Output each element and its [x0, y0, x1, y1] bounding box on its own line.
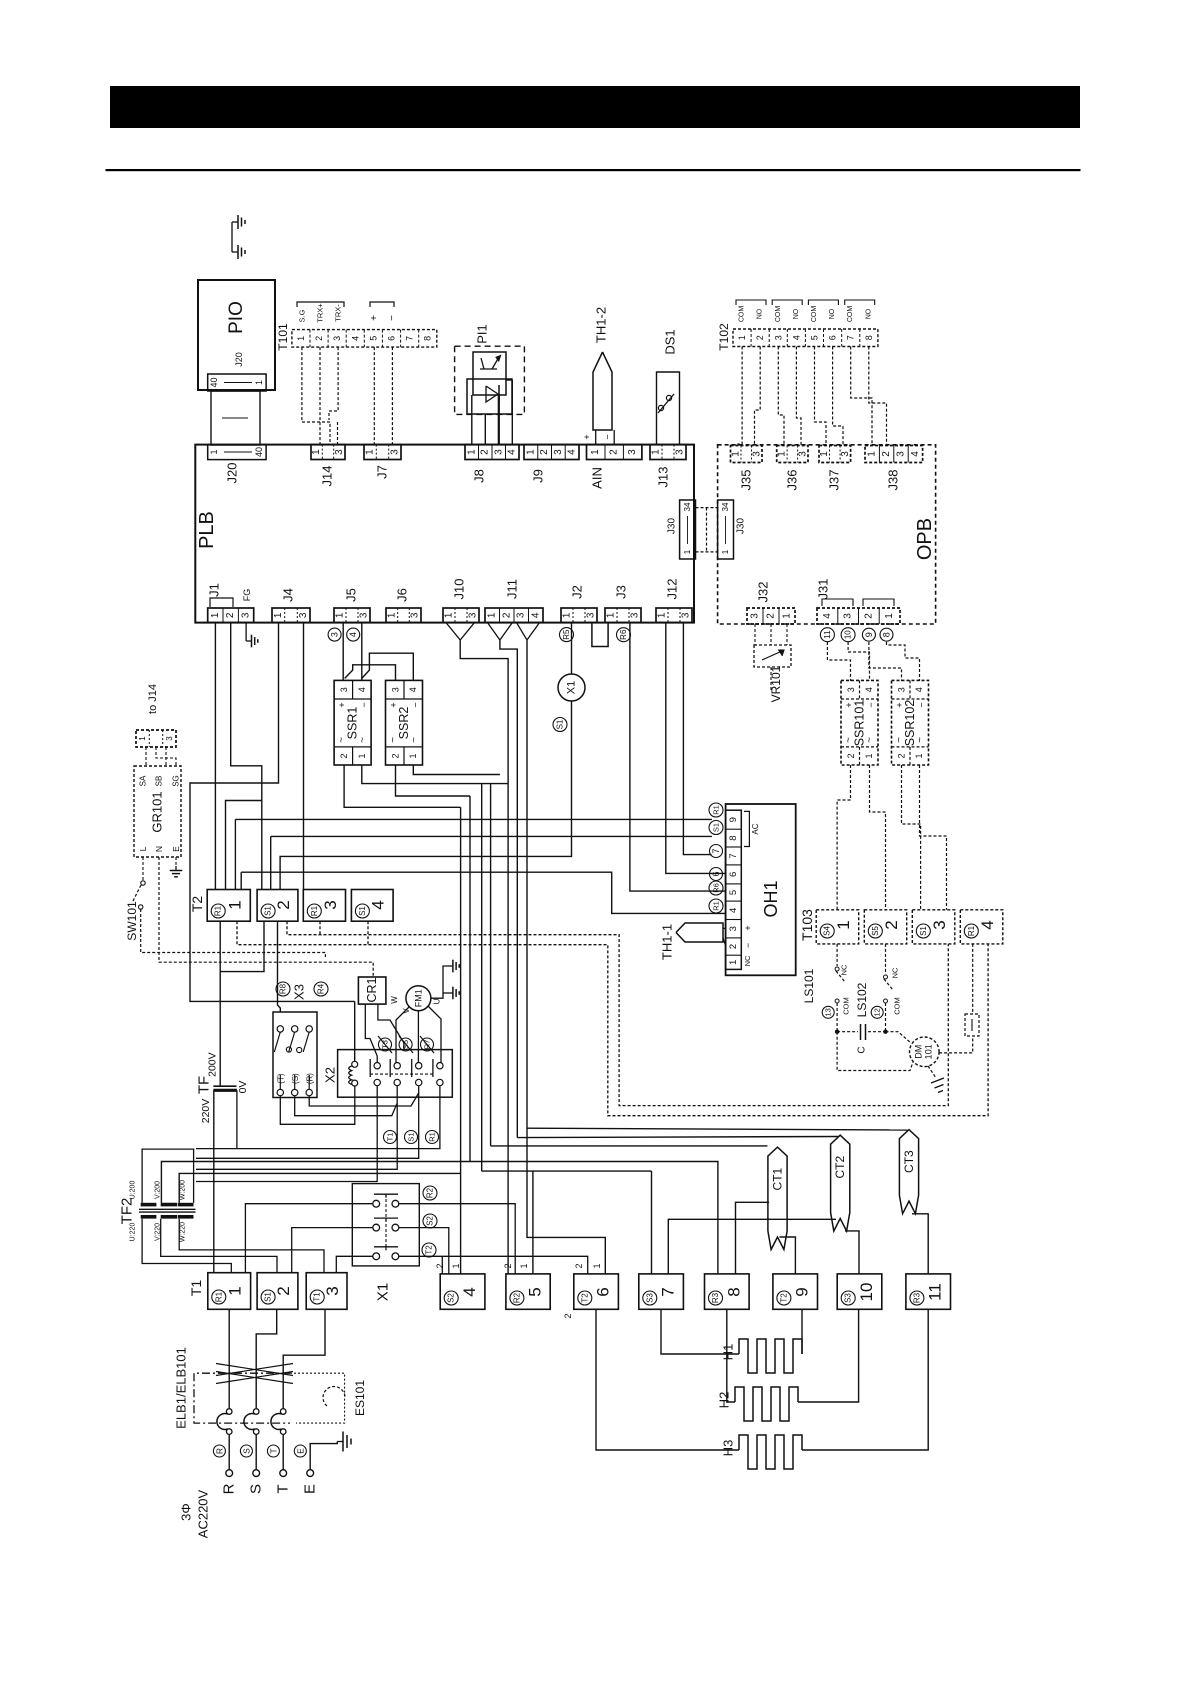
svg-text:R2: R2 — [512, 1292, 521, 1303]
svg-text:2: 2 — [339, 753, 349, 758]
connector J36 on OPB (dashed) — [777, 446, 808, 463]
svg-text:1: 1 — [444, 612, 455, 618]
X2 contact linkage (dashed) — [370, 1073, 433, 1075]
wire H1 right to box9 — [801, 1353, 803, 1355]
svg-text:J37: J37 — [827, 470, 842, 491]
svg-text:E: E — [171, 846, 181, 852]
svg-text:X2: X2 — [323, 1067, 338, 1083]
wire J1-2 to T2-2 (jog) — [231, 623, 262, 890]
svg-text:4: 4 — [460, 1287, 479, 1296]
svg-text:1: 1 — [365, 449, 376, 455]
circled R5 under J2 — [560, 628, 574, 642]
relay T2-2 — [257, 890, 298, 922]
svg-text:E: E — [302, 1484, 319, 1494]
svg-text:3: 3 — [332, 336, 342, 341]
wire SSR1-2 to heater bus — [344, 765, 461, 807]
header rule — [106, 169, 1081, 171]
CR1 wires — [365, 1004, 377, 1062]
wire box6 to H3 left rail — [596, 1309, 739, 1450]
svg-text:S1: S1 — [358, 906, 367, 916]
heater terminal 5 — [506, 1274, 550, 1309]
svg-text:1: 1 — [819, 451, 830, 457]
twisted pair triangle under J10 — [446, 623, 475, 640]
svg-text:R6: R6 — [712, 883, 721, 893]
svg-text:2: 2 — [314, 336, 324, 341]
svg-text:H1: H1 — [721, 1344, 736, 1361]
diagonal phase links into X2 — [378, 1036, 392, 1053]
svg-text:6: 6 — [594, 1287, 613, 1296]
svg-text:−: − — [359, 702, 369, 707]
svg-text:7: 7 — [728, 853, 739, 858]
svg-text:7: 7 — [659, 1287, 678, 1296]
connector AIN on PLB — [587, 445, 642, 460]
relay T2-1 — [207, 890, 250, 922]
svg-text:J32: J32 — [756, 582, 771, 603]
T2-3 dashed stub — [319, 921, 321, 935]
svg-text:S4: S4 — [823, 926, 832, 936]
svg-text:2: 2 — [846, 753, 856, 758]
J31 brackets — [822, 599, 853, 606]
svg-text:9: 9 — [864, 632, 874, 637]
svg-text:J20: J20 — [234, 352, 244, 367]
svg-text:10: 10 — [857, 1283, 876, 1302]
chassis ground pair above PIO — [231, 222, 233, 252]
ES101 dashed wiring — [290, 1373, 345, 1423]
svg-text:1: 1 — [296, 336, 306, 341]
svg-text:1: 1 — [357, 753, 367, 758]
wire SW101 down then right (dashed) — [141, 909, 326, 957]
wire SSR1-1 to J10 bundle — [362, 765, 508, 784]
svg-text:5: 5 — [368, 336, 378, 341]
svg-text:1: 1 — [590, 449, 601, 455]
circled numbers 11 10 9 8 under J31 — [820, 628, 834, 642]
svg-text:GR101: GR101 — [150, 791, 165, 832]
svg-text:R1: R1 — [967, 925, 976, 936]
wire H3 right to box11 rail — [802, 1309, 928, 1450]
current transformer CT2 — [831, 1135, 850, 1231]
svg-text:AC220V: AC220V — [196, 1489, 211, 1538]
svg-text:5: 5 — [728, 890, 739, 895]
svg-text:2: 2 — [225, 612, 236, 618]
solid state relay SSR102 — [892, 680, 929, 765]
branch CT1 to box8 — [736, 1202, 770, 1274]
svg-text:1: 1 — [683, 549, 692, 554]
svg-text:1: 1 — [311, 449, 322, 455]
svg-text:J5: J5 — [344, 588, 359, 602]
svg-text:1: 1 — [657, 612, 668, 618]
terminal T103-4 (dashed) — [960, 910, 1003, 944]
svg-text:40: 40 — [209, 377, 219, 387]
connector J8 on PLB — [465, 445, 519, 460]
svg-text:COM: COM — [775, 306, 782, 323]
wire J2-1 via X1 coil to T2-2 — [280, 701, 571, 890]
svg-text:T: T — [275, 1484, 292, 1493]
svg-text:1: 1 — [487, 612, 498, 618]
svg-text:R2: R2 — [426, 1187, 435, 1198]
breaker contacts — [226, 1409, 232, 1415]
svg-text:3: 3 — [339, 687, 349, 692]
svg-text:+: + — [369, 315, 380, 321]
wire J12-1 to OH1-6 — [666, 623, 726, 874]
svg-text:W: W — [390, 996, 399, 1004]
svg-text:TH1-2: TH1-2 — [594, 307, 609, 343]
svg-text:TF2: TF2 — [119, 1198, 136, 1225]
connector J30 on OPB — [718, 500, 734, 559]
svg-text:−: − — [387, 315, 398, 321]
T2-2 bottom joins TF 200V line — [220, 921, 264, 971]
svg-text:1: 1 — [592, 1263, 602, 1268]
svg-text:220V: 220V — [200, 1099, 212, 1124]
wire box7 to H1 left — [661, 1309, 739, 1354]
heater terminal 6 — [574, 1274, 619, 1309]
svg-text:S3: S3 — [645, 1293, 654, 1303]
svg-text:0V: 0V — [237, 1081, 249, 1094]
relay T2-3 — [303, 890, 345, 922]
heater terminal 10 — [837, 1274, 882, 1309]
svg-text:FG: FG — [242, 589, 252, 602]
svg-text:J1: J1 — [207, 583, 222, 597]
current transformer CT3 — [899, 1130, 918, 1214]
TF2 upper loop wiring — [142, 1149, 194, 1203]
svg-text:4: 4 — [978, 920, 997, 929]
CT2 wire to box10 — [845, 1231, 859, 1274]
wire J1-2 branch to T2-1 — [226, 801, 262, 890]
svg-text:13: 13 — [824, 1008, 833, 1016]
svg-text:DS1: DS1 — [663, 329, 678, 354]
svg-text:4: 4 — [408, 687, 418, 692]
svg-text:−: − — [411, 702, 421, 707]
svg-text:8: 8 — [728, 835, 739, 840]
OH1-9 feed wire — [235, 818, 712, 820]
svg-text:200V: 200V — [207, 1052, 219, 1077]
heater terminal 11 — [906, 1274, 951, 1309]
svg-text:J14: J14 — [320, 466, 335, 487]
svg-text:E: E — [295, 1448, 305, 1454]
capacitor C — [837, 1031, 858, 1033]
T2 dashed control wires to T103 — [287, 921, 948, 1105]
svg-text:PI1: PI1 — [475, 324, 490, 344]
svg-text:R1: R1 — [712, 901, 721, 911]
wire J3-3 to OH1-5 — [630, 623, 726, 892]
svg-text:3: 3 — [553, 449, 564, 455]
supply terminals — [226, 1470, 233, 1477]
svg-text:4: 4 — [530, 612, 541, 618]
svg-text:1: 1 — [728, 960, 739, 965]
svg-text:40: 40 — [254, 447, 264, 457]
wire J4-1 to X2 coil (long left route) — [190, 623, 355, 1002]
svg-text:SB: SB — [155, 776, 164, 787]
svg-text:H3: H3 — [721, 1440, 736, 1457]
svg-text:8: 8 — [882, 632, 892, 637]
terminal T103-3 (dashed) — [912, 910, 955, 944]
TF wires — [213, 1090, 215, 1272]
svg-text:J12: J12 — [665, 579, 680, 600]
svg-text:TH1-1: TH1-1 — [660, 924, 675, 960]
svg-text:−: − — [866, 702, 876, 707]
svg-text:1: 1 — [335, 612, 346, 618]
svg-text:R: R — [221, 1483, 238, 1494]
svg-text:J31: J31 — [816, 579, 831, 600]
svg-text:TRX-: TRX- — [334, 304, 343, 322]
wire J5-1 to SSR1-3 — [342, 623, 344, 681]
connector J2 on PLB — [561, 608, 597, 623]
svg-text:J3: J3 — [614, 585, 629, 599]
DM101 ground (dashed) — [928, 1066, 936, 1078]
svg-text:1: 1 — [782, 613, 793, 619]
svg-text:+: + — [582, 434, 592, 439]
wire T2-1 pin to OH1-4 net — [240, 872, 242, 889]
svg-text:3: 3 — [797, 451, 808, 457]
svg-text:2: 2 — [863, 613, 874, 619]
svg-text:1: 1 — [606, 612, 617, 618]
svg-text:T1: T1 — [188, 1280, 204, 1297]
svg-text:SSR101: SSR101 — [853, 700, 867, 747]
svg-text:S: S — [241, 1448, 251, 1454]
svg-text:S2: S2 — [426, 1216, 435, 1226]
svg-text:R5: R5 — [562, 629, 571, 640]
GR101 N wire to CR1 (dashed) — [159, 857, 373, 977]
terminal T1-3 — [306, 1273, 347, 1310]
svg-text:2: 2 — [609, 449, 620, 455]
GR101 E to ground (dashed) — [175, 857, 177, 866]
svg-text:6: 6 — [828, 335, 838, 340]
connector J12 on PLB — [656, 608, 692, 623]
svg-text:2: 2 — [435, 1263, 445, 1268]
svg-text:1: 1 — [519, 1263, 529, 1268]
trunk wire J10 pair to box5 — [460, 640, 508, 1274]
svg-text:T2: T2 — [580, 1293, 589, 1303]
svg-text:7: 7 — [846, 335, 856, 340]
wire J12-3 to OH1-7 — [683, 623, 711, 855]
circled R S T E — [213, 1445, 225, 1457]
PI1 leads to J8 — [471, 395, 473, 445]
svg-text:3: 3 — [298, 612, 309, 618]
svg-text:ELB1/ELB101: ELB1/ELB101 — [174, 1347, 189, 1429]
svg-text:1: 1 — [834, 920, 853, 929]
terminal T103-2 (dashed) — [864, 910, 906, 944]
svg-text:X3: X3 — [292, 984, 307, 1000]
relay coil CR1 — [358, 977, 386, 1004]
svg-text:OH1: OH1 — [761, 880, 781, 917]
svg-text:8: 8 — [724, 1287, 743, 1296]
wire J1-1 to T2-1 — [214, 623, 216, 890]
connector J30 on PLB — [680, 500, 696, 559]
svg-text:5: 5 — [526, 1287, 545, 1296]
svg-text:3: 3 — [516, 612, 527, 618]
wire to T2-1 with branch to OH1-9 — [234, 819, 236, 889]
svg-text:2: 2 — [881, 451, 892, 457]
GR101 filter (dashed) — [134, 766, 181, 857]
svg-text:4: 4 — [864, 687, 874, 692]
svg-text:NO: NO — [829, 308, 836, 319]
relay T2-4 — [351, 890, 393, 922]
svg-text:W:200: W:200 — [180, 1180, 187, 1200]
svg-text:2: 2 — [897, 753, 907, 758]
svg-text:S1: S1 — [919, 926, 928, 936]
svg-text:2: 2 — [766, 613, 777, 619]
OPB board outline (dashed) — [718, 445, 936, 624]
svg-text:T2: T2 — [425, 1245, 434, 1255]
svg-text:3: 3 — [750, 613, 761, 619]
svg-text:COM: COM — [811, 306, 818, 323]
DM101 wiring (dashed) — [886, 1032, 912, 1043]
FM1 ground wires — [431, 966, 448, 998]
svg-text:X1: X1 — [375, 1283, 392, 1301]
wire box8 to H2 left — [727, 1309, 735, 1402]
svg-text:R: R — [214, 1448, 224, 1454]
svg-text:11: 11 — [926, 1283, 945, 1301]
svg-text:SW101: SW101 — [125, 901, 139, 941]
terminal T1-2 — [257, 1273, 298, 1310]
svg-text:7: 7 — [711, 848, 721, 853]
svg-text:3: 3 — [773, 335, 783, 340]
svg-text:SG: SG — [172, 775, 181, 787]
svg-text:1: 1 — [730, 451, 741, 457]
svg-text:CR1: CR1 — [365, 977, 379, 1002]
svg-text:2: 2 — [503, 1263, 513, 1268]
svg-text:3: 3 — [897, 687, 907, 692]
earth wire from E — [310, 1442, 337, 1470]
svg-text:AC: AC — [751, 823, 760, 834]
connector J37 on OPB (dashed) — [819, 446, 851, 463]
svg-text:T103: T103 — [799, 909, 815, 941]
svg-text:NO: NO — [865, 308, 872, 319]
svg-text:1: 1 — [737, 335, 747, 340]
svg-text:34: 34 — [721, 502, 730, 511]
svg-text:9: 9 — [793, 1287, 812, 1296]
svg-text:U:200: U:200 — [130, 1181, 137, 1200]
breaker enclosure (dash-dot) — [194, 1373, 290, 1423]
svg-text:U:220: U:220 — [130, 1223, 137, 1242]
svg-text:H2: H2 — [717, 1392, 732, 1409]
svg-text:SA: SA — [139, 775, 148, 786]
svg-text:L: L — [138, 846, 148, 851]
branch CT2 to box7 — [668, 1219, 836, 1274]
svg-text:T1: T1 — [313, 1292, 322, 1302]
breaker trip linkage diagonals — [216, 1364, 293, 1376]
svg-text:COM: COM — [847, 306, 854, 323]
svg-text:2: 2 — [391, 753, 401, 758]
svg-text:2: 2 — [882, 920, 901, 929]
svg-text:1: 1 — [386, 612, 397, 618]
fan motor FM1 — [406, 986, 431, 1011]
connector J38 on OPB (dashed) — [865, 446, 923, 463]
svg-text:1: 1 — [914, 753, 924, 758]
T101 bracket over pins 1-3 — [297, 302, 344, 307]
X1 row1 wiring — [245, 1204, 372, 1273]
terminal T103-1 (dashed) — [816, 910, 859, 944]
T1 outputs to breaker poles — [228, 1309, 230, 1408]
contact block X3 — [273, 1012, 317, 1098]
J30 cable (dashed) — [696, 507, 718, 509]
svg-text:J2: J2 — [570, 585, 585, 599]
svg-text:T101: T101 — [276, 323, 290, 351]
CT1 wire to box9 — [780, 1237, 796, 1274]
wires to-J14 to GR101 (dashed) — [145, 747, 147, 766]
CT3 wire to box11 — [912, 1214, 928, 1274]
J32 to VR101 wiring (dashed) — [754, 624, 756, 645]
svg-text:1: 1 — [226, 1286, 245, 1295]
svg-text:7: 7 — [405, 336, 415, 341]
svg-text:R1: R1 — [214, 905, 223, 916]
svg-text:6: 6 — [711, 871, 721, 876]
svg-text:J11: J11 — [505, 579, 520, 599]
trunk wire J11 pair to CT3 and box6 — [527, 640, 605, 1274]
svg-text:4: 4 — [369, 900, 388, 909]
svg-text:T2: T2 — [779, 1293, 788, 1303]
OH1 AC bracket — [744, 811, 749, 846]
svg-text:2: 2 — [480, 449, 491, 455]
svg-text:1: 1 — [451, 1263, 461, 1268]
svg-text:6: 6 — [728, 872, 739, 877]
svg-text:1: 1 — [864, 753, 874, 758]
svg-text:FM1: FM1 — [413, 989, 423, 1007]
svg-text:+: + — [743, 925, 753, 930]
svg-text:CT1: CT1 — [771, 1167, 785, 1190]
svg-text:S1: S1 — [264, 1292, 273, 1302]
svg-text:R1: R1 — [214, 1291, 223, 1302]
svg-text:3: 3 — [846, 687, 856, 692]
connector J35 on OPB (dashed) — [731, 446, 763, 463]
svg-text:2: 2 — [563, 1313, 573, 1318]
svg-text:R1: R1 — [712, 805, 721, 815]
connector J14 on PLB — [311, 445, 345, 460]
svg-text:J38: J38 — [886, 470, 901, 491]
svg-text:11: 11 — [823, 630, 832, 639]
svg-text:NO: NO — [757, 308, 764, 319]
svg-text:3: 3 — [330, 632, 340, 637]
svg-text:R3: R3 — [912, 1292, 921, 1303]
jumper link J2-3 to J3-1 — [592, 623, 608, 647]
svg-text:T2: T2 — [189, 896, 205, 913]
connector J11 on PLB — [485, 608, 543, 623]
motor DM101 (dashed) — [910, 1037, 940, 1067]
svg-text:T1: T1 — [386, 1133, 395, 1142]
svg-text:C: C — [857, 1046, 868, 1053]
svg-text:−: − — [743, 943, 753, 948]
svg-text:J8: J8 — [472, 469, 487, 483]
svg-text:10: 10 — [844, 630, 853, 639]
svg-text:to J14: to J14 — [147, 684, 159, 714]
svg-text:S.G: S.G — [297, 309, 306, 322]
svg-text:NC: NC — [891, 967, 900, 978]
svg-text:N: N — [154, 846, 164, 852]
connector J10 on PLB — [443, 608, 479, 623]
long run TF2 V200 to box8 — [161, 1162, 718, 1274]
svg-text:R6: R6 — [619, 629, 628, 640]
svg-text:3: 3 — [410, 612, 421, 618]
heater terminal 9 — [773, 1274, 818, 1309]
svg-text:S1: S1 — [712, 823, 721, 832]
X1 row3 wiring — [336, 1256, 373, 1272]
terminal strip T101 (dashed) — [292, 330, 437, 348]
svg-text:OPB: OPB — [914, 518, 936, 560]
svg-text:2: 2 — [574, 1263, 584, 1268]
svg-text:101: 101 — [924, 1044, 934, 1059]
wire H2 right to box10 via right rail — [798, 1309, 859, 1402]
svg-text:4: 4 — [350, 336, 360, 341]
X2 output wires down-left — [196, 1086, 440, 1149]
svg-text:4: 4 — [791, 335, 801, 340]
wire SSR2-1 to J11 bundle — [413, 765, 500, 775]
X3 outputs into X2 (nested) — [309, 1093, 419, 1106]
svg-text:(S): (S) — [291, 1073, 300, 1084]
svg-text:J30: J30 — [667, 518, 678, 535]
svg-text:9: 9 — [728, 817, 739, 822]
svg-text:PLB: PLB — [196, 511, 218, 549]
svg-text:2: 2 — [274, 1286, 293, 1295]
svg-text:3: 3 — [493, 449, 504, 455]
